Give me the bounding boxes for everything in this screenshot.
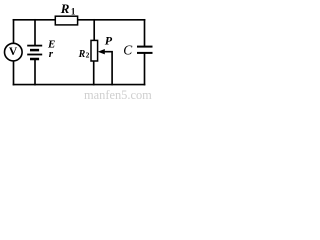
svg-text:1: 1 — [71, 6, 76, 16]
svg-text:r: r — [49, 48, 54, 60]
wire right (above capacitor) — [144, 20, 146, 46]
wire top-right segment — [78, 19, 145, 21]
svg-text:P: P — [105, 34, 113, 48]
battery cell plate short 2 — [30, 58, 39, 61]
wire battery branch bottom — [34, 60, 36, 85]
wire R2 branch bottom — [93, 61, 95, 85]
wire battery branch top — [34, 20, 36, 45]
svg-text:R: R — [78, 49, 86, 60]
svg-text:2: 2 — [86, 51, 90, 60]
wiper arrow head P — [98, 49, 105, 54]
wire top-left segment — [14, 19, 56, 21]
wire left (below voltmeter) — [13, 61, 15, 85]
wire wiper branch — [104, 52, 112, 85]
battery cell plate short 1 — [30, 49, 39, 52]
voltmeter V — [5, 43, 23, 61]
capacitor C plate bottom — [137, 52, 153, 54]
battery cell plate long 2 — [27, 54, 42, 56]
wire bottom — [14, 84, 145, 86]
wire left (above voltmeter) — [13, 20, 15, 44]
rheostat R2 body — [91, 40, 98, 61]
svg-text:V: V — [9, 46, 18, 58]
svg-text:C: C — [123, 43, 133, 58]
resistor R1 — [55, 16, 77, 25]
svg-text:manfen5.com: manfen5.com — [84, 88, 152, 102]
wire R2 branch top — [93, 20, 95, 41]
wire right (below capacitor) — [144, 54, 146, 85]
capacitor C plate top — [137, 46, 153, 48]
battery cell plate long 1 — [27, 45, 42, 47]
svg-text:R: R — [60, 1, 70, 16]
